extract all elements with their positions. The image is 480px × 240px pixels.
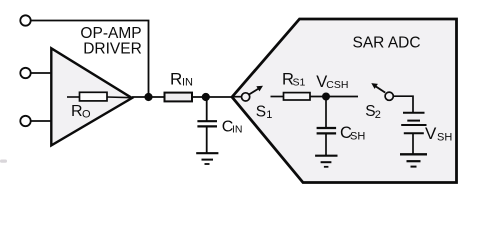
svg-text:V: V xyxy=(425,124,437,143)
svg-text:2: 2 xyxy=(375,109,381,121)
svg-text:SAR ADC: SAR ADC xyxy=(353,34,421,51)
svg-text:SH: SH xyxy=(350,130,365,142)
svg-text:SH: SH xyxy=(437,131,452,143)
svg-text:CSH: CSH xyxy=(326,79,348,91)
svg-text:S: S xyxy=(256,103,266,120)
svg-text:IN: IN xyxy=(232,124,243,136)
svg-text:R: R xyxy=(170,70,182,89)
svg-text:IN: IN xyxy=(182,77,193,89)
svg-text:R: R xyxy=(71,103,83,120)
svg-text:DRIVER: DRIVER xyxy=(83,41,142,58)
svg-text:S1: S1 xyxy=(293,76,306,88)
svg-text:1: 1 xyxy=(266,109,272,121)
svg-text:O: O xyxy=(82,109,91,121)
